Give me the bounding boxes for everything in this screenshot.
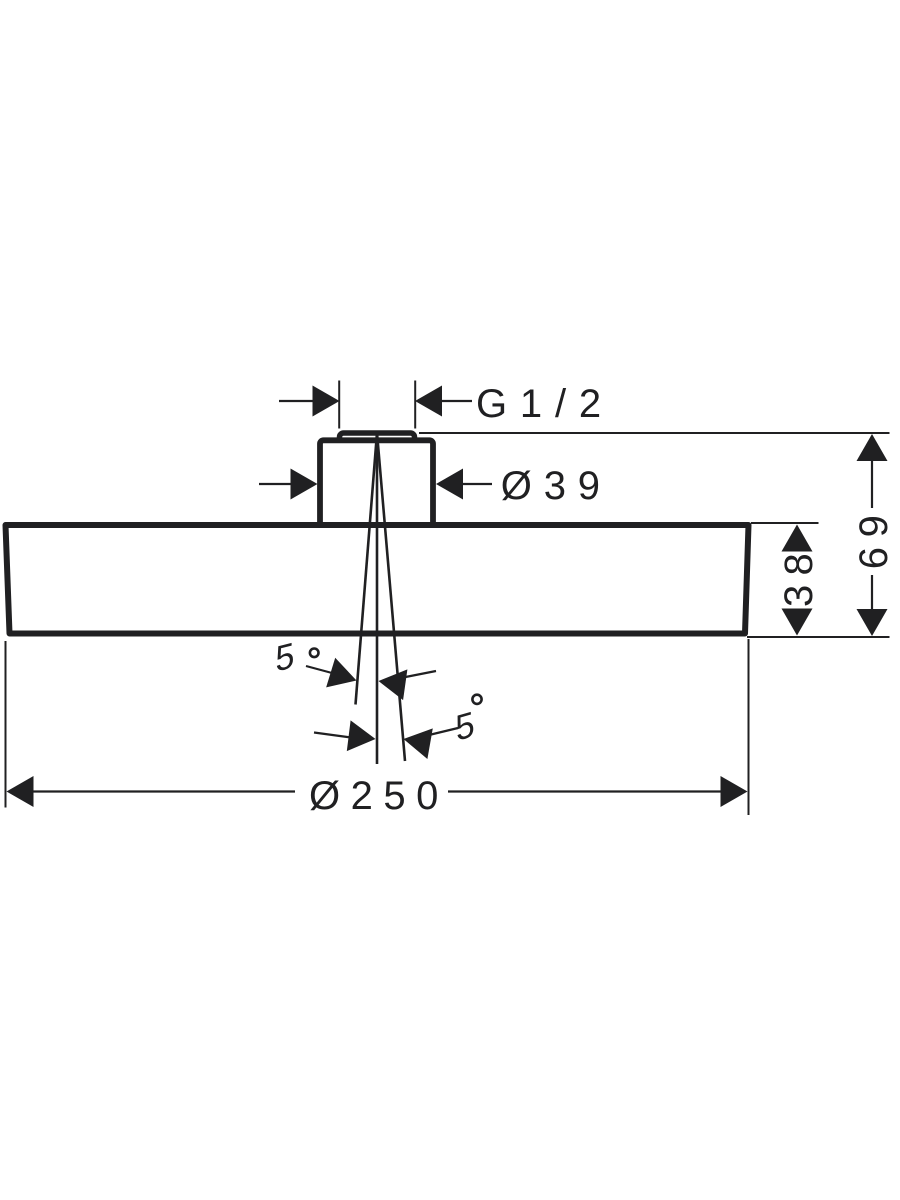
svg-text:Ø250: Ø250 bbox=[309, 774, 449, 818]
G1/2 extension line right bbox=[414, 381, 416, 429]
G1/2 left arrowhead bbox=[313, 386, 340, 417]
69 dimension line upper segment bbox=[871, 459, 873, 508]
D250 left extension line bbox=[5, 641, 7, 808]
D250 left arrowhead bbox=[7, 776, 34, 807]
svg-text:5: 5 bbox=[276, 635, 295, 680]
svg-text:5: 5 bbox=[454, 704, 475, 749]
D39 left arrow line bbox=[259, 483, 293, 485]
spray axis center line bbox=[376, 433, 379, 764]
spray angle line right 5deg bbox=[377, 433, 405, 761]
38 top arrowhead bbox=[782, 525, 813, 552]
5deg lower left arrowhead bbox=[347, 720, 378, 754]
connector block bbox=[320, 440, 433, 528]
38 bottom arrowhead bbox=[782, 609, 813, 636]
5deg lower right arrowhead bbox=[401, 724, 433, 759]
5deg upper right leader bbox=[403, 671, 436, 678]
svg-text:Ø39: Ø39 bbox=[501, 464, 612, 508]
D250 right arrowhead bbox=[721, 776, 748, 807]
G1/2 right arrow line bbox=[440, 400, 472, 402]
5deg lower right leader bbox=[429, 728, 458, 735]
svg-text:38: 38 bbox=[777, 544, 821, 607]
shower head disc body bbox=[6, 525, 749, 634]
38 top extension line bbox=[751, 522, 819, 524]
G1/2 right arrowhead bbox=[415, 386, 442, 417]
5deg lower degree circle bbox=[472, 695, 481, 704]
D250 right line bbox=[448, 790, 722, 792]
5deg lower left leader bbox=[314, 733, 351, 738]
69 top arrowhead bbox=[857, 434, 888, 461]
spray angle line left 5deg bbox=[356, 433, 378, 705]
svg-text:G 1 / 2: G 1 / 2 bbox=[476, 382, 602, 426]
D250 left line bbox=[32, 790, 295, 792]
5deg upper degree circle bbox=[310, 649, 319, 658]
G1/2 left arrow line bbox=[279, 400, 315, 402]
svg-text:69: 69 bbox=[852, 505, 896, 569]
D250 right extension line bbox=[748, 639, 750, 815]
69 top extension line bbox=[419, 432, 890, 434]
D39 left arrowhead bbox=[291, 469, 318, 500]
G1/2 extension line left bbox=[338, 381, 340, 429]
69 dimension line lower segment bbox=[871, 575, 873, 611]
5deg upper left arrowhead bbox=[326, 658, 361, 696]
D39 right arrowhead bbox=[436, 469, 463, 500]
common bottom extension line bbox=[747, 636, 890, 638]
69 bottom arrowhead bbox=[857, 609, 888, 636]
D39 right arrow line bbox=[460, 483, 492, 485]
connection cap (G1/2 nipple) bbox=[340, 433, 415, 449]
5deg upper left leader bbox=[306, 666, 332, 673]
5deg upper right arrowhead bbox=[376, 666, 407, 700]
